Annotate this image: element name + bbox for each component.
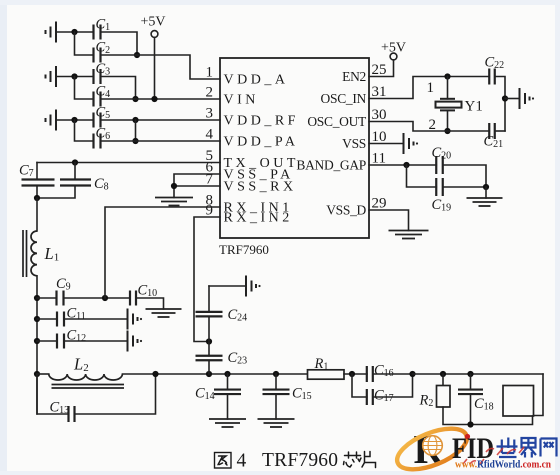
node C18 bottom — [467, 421, 473, 427]
wire pin 11 BAND_GAP to C20 — [369, 164, 436, 166]
svg-text:1: 1 — [206, 65, 214, 81]
capacitor C15 — [263, 390, 290, 395]
node C23/bus — [206, 371, 212, 377]
capacitor C3 — [94, 69, 101, 84]
ground for C14 — [209, 419, 246, 427]
wire bus down to C18 — [470, 374, 472, 389]
wire bus right down to antenna — [534, 374, 544, 416]
wire C21 right — [495, 130, 505, 132]
capacitor C8 — [60, 180, 91, 186]
capacitor C19 — [436, 178, 443, 196]
wire left rail down — [36, 276, 38, 414]
svg-text:BAND_GAP: BAND_GAP — [296, 158, 366, 173]
wire pin 25 EN2 to +5V — [369, 60, 394, 77]
wire +5V to VIN net — [154, 37, 156, 99]
inductor L2 — [49, 374, 123, 380]
wire junction to C6 — [75, 120, 94, 141]
wire pin 31 OSC_IN to crystal top rail — [369, 77, 489, 99]
wire C5 to pin 3 VDD_RF — [101, 119, 221, 121]
ground for VSS_D — [389, 231, 429, 239]
node junction C3 — [71, 73, 77, 79]
wire junction to C4 — [75, 77, 94, 100]
svg-text:4: 4 — [206, 127, 214, 143]
wire bus down to C14 — [227, 374, 229, 389]
wire to ground — [485, 187, 487, 198]
ground for C24 — [246, 276, 256, 297]
node junction C1 — [71, 29, 77, 35]
svg-text:TRF7960: TRF7960 — [219, 242, 269, 257]
wire Y1 bottom — [447, 110, 449, 131]
wire down to C7 — [36, 163, 38, 180]
node bus left — [34, 371, 40, 377]
wire node down to C17 — [352, 374, 367, 397]
wire R2 bottom rail to antenna — [443, 407, 533, 425]
svg-text:10: 10 — [372, 129, 387, 145]
node C5 branch — [132, 117, 138, 123]
node C19/C20 right — [483, 184, 489, 190]
wire ground to C5 — [56, 119, 94, 121]
node C6 branch — [132, 138, 138, 144]
svg-text:9: 9 — [206, 203, 214, 219]
wire ground to C3 — [56, 76, 94, 78]
resistor R1 — [308, 370, 345, 379]
wire C16 right to node — [373, 373, 413, 375]
svg-text:+5V: +5V — [140, 15, 165, 30]
wire bus down to C15 — [275, 374, 277, 389]
ground for crystal network — [520, 88, 530, 109]
svg-text:www.RfidWorld.com.cn: www.RfidWorld.com.cn — [455, 459, 551, 471]
wire bus L2 to R1 — [122, 373, 307, 375]
wire pin 5 TX_OUT — [37, 162, 220, 164]
node C18 top — [467, 371, 473, 377]
capacitor C2 — [94, 48, 101, 63]
node C1/C2 join — [134, 52, 140, 58]
svg-text:VSS_D: VSS_D — [326, 203, 366, 218]
node BAND_GAP branch — [403, 162, 409, 168]
svg-text:VDD_A: VDD_A — [224, 73, 289, 88]
node R2 top — [440, 371, 446, 377]
node C12 row — [34, 338, 40, 344]
svg-text:VDD_PA: VDD_PA — [224, 135, 299, 150]
capacitor C7 — [22, 180, 55, 186]
svg-text:VDD_RF: VDD_RF — [224, 114, 299, 129]
wire pin 30 OSC_OUT to crystal bottom rail — [369, 122, 489, 132]
antenna connector J1 — [503, 386, 534, 417]
wire BAND_GAP down to C19 — [407, 165, 437, 187]
capacitor C21 — [489, 123, 495, 139]
wire C23 to bus — [208, 360, 210, 374]
svg-text:31: 31 — [372, 84, 387, 100]
capacitor C16 — [367, 366, 373, 382]
wire C7 bottom down — [36, 186, 38, 199]
svg-text:TRF7960: TRF7960 — [262, 450, 338, 471]
wire C17 right up to bus — [373, 374, 413, 397]
ground for C19/C20 — [467, 198, 503, 206]
capacitor C14 — [214, 390, 241, 395]
ground for C5 — [46, 110, 57, 131]
capacitor C6 — [94, 134, 101, 149]
node C7/C8 bottom — [34, 195, 40, 201]
capacitor C17 — [367, 389, 373, 405]
wire bus to L2 — [37, 373, 49, 375]
wire C8 bottom to node — [37, 186, 75, 199]
node C14/bus — [224, 371, 230, 377]
wire C5 node down to C6 node — [135, 120, 137, 141]
svg-text:1: 1 — [427, 80, 435, 96]
node C13/bus — [152, 371, 158, 377]
node junction C5 — [71, 117, 77, 123]
wire down to C24 — [208, 286, 210, 312]
wire pin 10 VSS to ground — [369, 143, 402, 145]
wire C1 right to C2 node — [101, 32, 138, 55]
svg-text:EN2: EN2 — [342, 69, 366, 84]
wire C10 to ground — [136, 298, 164, 309]
ground for C11 — [128, 309, 138, 330]
resistor R2 — [437, 386, 451, 408]
ground for VSS — [404, 133, 414, 154]
wire to Y1 top — [447, 77, 449, 99]
wire to C11 — [37, 318, 57, 320]
wire C18 to bottom rail — [470, 394, 472, 424]
svg-text:VSS: VSS — [342, 136, 366, 151]
capacitor C1 — [94, 25, 101, 40]
svg-text:VIN: VIN — [224, 93, 259, 108]
node C9 row — [34, 295, 40, 301]
node C15/bus — [273, 371, 279, 377]
node crystal pin 1 — [444, 73, 450, 79]
wire C19 right — [443, 186, 486, 188]
node TX_OUT branch — [72, 159, 78, 165]
wire C24 to C23 — [208, 316, 210, 356]
ground for C10 — [146, 309, 182, 317]
capacitor C9 — [57, 291, 64, 306]
svg-text:OSC_IN: OSC_IN — [321, 91, 367, 106]
svg-text:3: 3 — [206, 106, 214, 122]
crystal Y1 — [440, 99, 455, 111]
inductor L1 — [31, 231, 37, 276]
capacitor C18 — [458, 390, 483, 395]
node RX_IN2 join — [206, 338, 212, 344]
wire rail down to C13 — [37, 374, 69, 414]
wire C15 to ground — [275, 394, 277, 419]
wire C11 to ground — [64, 318, 126, 320]
caption: 图 4 TRF7960 芯片 — [215, 453, 232, 469]
node crystal ground branch — [502, 95, 508, 101]
capacitor C11 — [57, 312, 64, 327]
wire to C9 — [37, 297, 57, 299]
node VSS_PA/VSS_RX — [171, 183, 177, 189]
wire C6 to pin 4 VDD_PA — [101, 140, 221, 142]
capacitor C13 — [69, 406, 75, 422]
wire C3 right to C4 node — [101, 77, 136, 100]
svg-text:VSS_RX: VSS_RX — [224, 180, 297, 195]
wire C14 to ground — [227, 394, 229, 419]
capacitor C4 — [94, 92, 101, 107]
node R1/C16/C17 — [349, 371, 355, 377]
svg-text:11: 11 — [372, 151, 386, 167]
svg-text:2: 2 — [206, 85, 214, 101]
ground for C3 — [46, 66, 57, 87]
wire bus to antenna — [413, 373, 544, 375]
wire to C12 — [37, 340, 57, 342]
capacitor C24 — [196, 312, 223, 317]
capacitor C10 — [130, 291, 136, 306]
wire TX node down to C8 — [74, 163, 76, 180]
ground for VSS_PA/VSS_RX — [155, 198, 193, 206]
ground for C12 — [128, 331, 138, 352]
wire junction to C2 — [75, 32, 94, 55]
wire C13 up to bus — [75, 374, 156, 414]
wire pin 8 RX_IN1 down to C9/C10 node — [105, 207, 220, 298]
node RX_IN1 join — [102, 295, 108, 301]
ground for C15 — [258, 419, 295, 427]
wire to crystal ground — [505, 98, 518, 100]
wire C2 to pin 1 VDD_A — [101, 55, 221, 79]
wire C24 top to ground — [209, 285, 245, 287]
wire C4 to pin 2 VIN — [101, 98, 221, 100]
svg-text:4: 4 — [237, 451, 247, 472]
node +5V on VIN net — [151, 96, 157, 102]
svg-text:Y1: Y1 — [465, 99, 483, 115]
capacitor C12 — [57, 334, 64, 349]
node C16/C17 right — [409, 371, 415, 377]
capacitor C22 — [489, 69, 495, 85]
wire pin 6 VSS_PA to ground — [174, 174, 220, 198]
wire ground to C1 — [56, 31, 94, 33]
wire bus down to R2 — [442, 374, 444, 386]
wire pin 29 VSS_D to ground — [369, 210, 409, 231]
node C3/C4 join — [132, 96, 138, 102]
wire C22 right down — [495, 77, 505, 132]
capacitor C20 — [436, 156, 443, 174]
ground for C1 — [46, 22, 57, 43]
wire C12 to ground — [64, 340, 126, 342]
capacitor C23 — [196, 356, 223, 361]
svg-text:30: 30 — [372, 107, 387, 123]
capacitor C5 — [94, 113, 101, 128]
wire down to L1 — [36, 198, 38, 231]
IC U1 TRF7960 body — [220, 58, 369, 238]
wire pin 9 RX_IN2 down to C23/C24 node — [194, 217, 220, 342]
svg-text:OSC_OUT: OSC_OUT — [307, 114, 367, 129]
wire R1 to C16 — [344, 373, 367, 375]
node crystal pin 2 — [444, 128, 450, 134]
svg-text:29: 29 — [372, 196, 387, 212]
wire pin 7 VSS_RX — [174, 185, 220, 187]
node C11 row — [34, 316, 40, 322]
svg-text:RX_IN2: RX_IN2 — [224, 211, 293, 226]
svg-text:25: 25 — [372, 62, 387, 78]
wire C9 to C10 — [64, 297, 130, 299]
wire C20 right down — [443, 165, 486, 187]
